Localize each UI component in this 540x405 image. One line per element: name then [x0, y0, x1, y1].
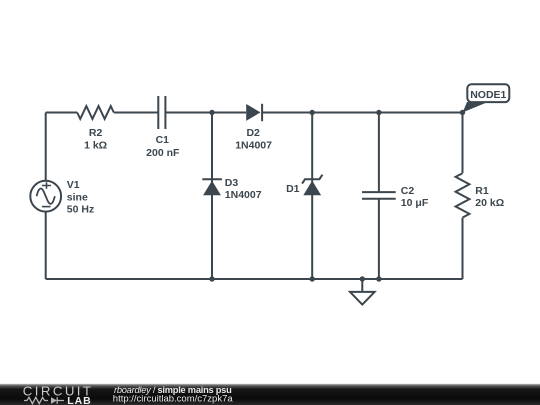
wire C2 branch lower [378, 199, 380, 279]
svg-text:10 μF: 10 μF [401, 197, 429, 209]
resistor R1 [456, 173, 470, 217]
svg-text:200 nF: 200 nF [146, 147, 180, 159]
diode D2 [246, 104, 262, 121]
wire right branch lower (R1 bottom lead) [462, 218, 464, 279]
svg-text:R2: R2 [89, 127, 103, 139]
wire right branch upper (R1 top lead) [462, 113, 464, 174]
node NODE1 flag [463, 84, 510, 112]
wire D3 branch [211, 113, 213, 280]
junction node C (C2 top) [376, 110, 381, 115]
wire top rail: D2 to NODE1 corner [262, 112, 462, 114]
wire left branch lower (V1 bottom lead) [45, 212, 47, 279]
resistor R2 [77, 106, 114, 119]
svg-text:D1: D1 [286, 183, 300, 195]
capacitor C2 [362, 192, 396, 199]
wire C2 branch upper [378, 113, 380, 193]
wire top rail: R2 to C1 [114, 112, 158, 114]
voltage source V1 [30, 181, 61, 212]
footer bar [0, 384, 540, 405]
svg-text:C1: C1 [156, 134, 170, 146]
junction node F (ground tap) [360, 276, 365, 281]
svg-text:LAB: LAB [67, 395, 92, 405]
svg-text:C2: C2 [401, 185, 415, 197]
svg-text:D2: D2 [246, 127, 260, 139]
junction node NODE1 corner [460, 110, 465, 115]
wire top rail: V1 to R2 [46, 112, 77, 114]
ground [350, 279, 375, 305]
junction node B (D1 top) [310, 110, 315, 115]
junction node G (C2 bottom) [376, 276, 381, 281]
capacitor C1 [158, 96, 165, 129]
svg-text:http://circuitlab.com/c7zpk7a: http://circuitlab.com/c7zpk7a [113, 393, 234, 404]
junction node D (D3 bottom) [209, 276, 214, 281]
svg-text:D3: D3 [225, 177, 239, 189]
svg-text:NODE1: NODE1 [470, 89, 506, 101]
wire bottom rail [46, 278, 463, 280]
svg-text:1N4007: 1N4007 [235, 140, 272, 152]
svg-text:R1: R1 [475, 185, 489, 197]
wire left branch upper (V1 top lead) [45, 113, 47, 181]
diode D3 [202, 179, 222, 195]
svg-text:sine: sine [67, 191, 88, 203]
svg-text:20 kΩ: 20 kΩ [475, 197, 504, 209]
wire D1 branch [311, 113, 313, 280]
CircuitLab logo diode glyph [51, 397, 64, 403]
svg-text:1 kΩ: 1 kΩ [84, 140, 107, 152]
junction node E (D1 bottom) [310, 276, 315, 281]
junction node A (D3 top) [209, 110, 214, 115]
zener diode D1 [302, 175, 322, 196]
svg-text:V1: V1 [67, 179, 80, 191]
svg-text:50 Hz: 50 Hz [67, 204, 94, 216]
CircuitLab logo resistor squiggle [24, 397, 48, 403]
svg-text:1N4007: 1N4007 [225, 189, 262, 201]
wire top rail: C1 to D2 (through node A) [165, 112, 246, 114]
